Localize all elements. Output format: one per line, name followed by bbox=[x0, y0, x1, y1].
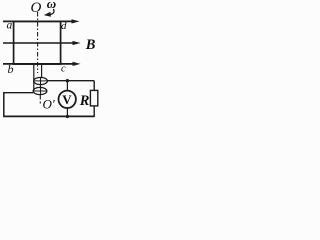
shaft through rings bbox=[40, 78, 42, 95]
svg-text:O′: O′ bbox=[43, 97, 55, 112]
resistor R box bbox=[90, 90, 97, 106]
wire: lower brush to left bbox=[4, 92, 33, 94]
coil lead wire right bbox=[41, 64, 43, 78]
svg-text:c: c bbox=[61, 64, 66, 75]
wire: bottom bbox=[3, 115, 94, 117]
slip ring 1 (upper) bbox=[34, 77, 48, 84]
wire: right vertical upper bbox=[93, 81, 95, 91]
svg-text:B: B bbox=[85, 37, 96, 53]
wire: left vertical bbox=[3, 92, 5, 116]
voltmeter circle bbox=[58, 91, 75, 108]
svg-text:a: a bbox=[7, 19, 13, 31]
slip ring 2 (lower) bbox=[33, 87, 47, 94]
svg-text:b: b bbox=[8, 62, 14, 76]
svg-text:R: R bbox=[79, 93, 90, 109]
junction dot top bbox=[66, 79, 69, 82]
ring 2 waist line bbox=[33, 90, 47, 92]
svg-text:O: O bbox=[31, 0, 42, 16]
svg-text:ω: ω bbox=[47, 0, 56, 11]
field line bottom (along side bc) bbox=[3, 63, 74, 65]
axis OO' (dash-dot rotation axis) bbox=[37, 12, 39, 73]
coil lead wire left bbox=[33, 64, 35, 91]
field line middle B bbox=[3, 42, 74, 44]
axis lower dashes bbox=[39, 95, 41, 104]
rotation arrow (curved, around axis) bbox=[50, 9, 54, 15]
wire: upper brush to right bbox=[47, 80, 94, 82]
junction dot bottom bbox=[66, 115, 69, 118]
field line top (along side ad) bbox=[3, 20, 74, 22]
ring 1 waist line bbox=[34, 80, 47, 82]
svg-text:d: d bbox=[61, 20, 67, 32]
wire: right vertical lower bbox=[93, 106, 95, 117]
svg-text:V: V bbox=[62, 92, 72, 107]
voltmeter branch wires bbox=[66, 81, 68, 91]
coil loop abcd bbox=[14, 21, 61, 64]
